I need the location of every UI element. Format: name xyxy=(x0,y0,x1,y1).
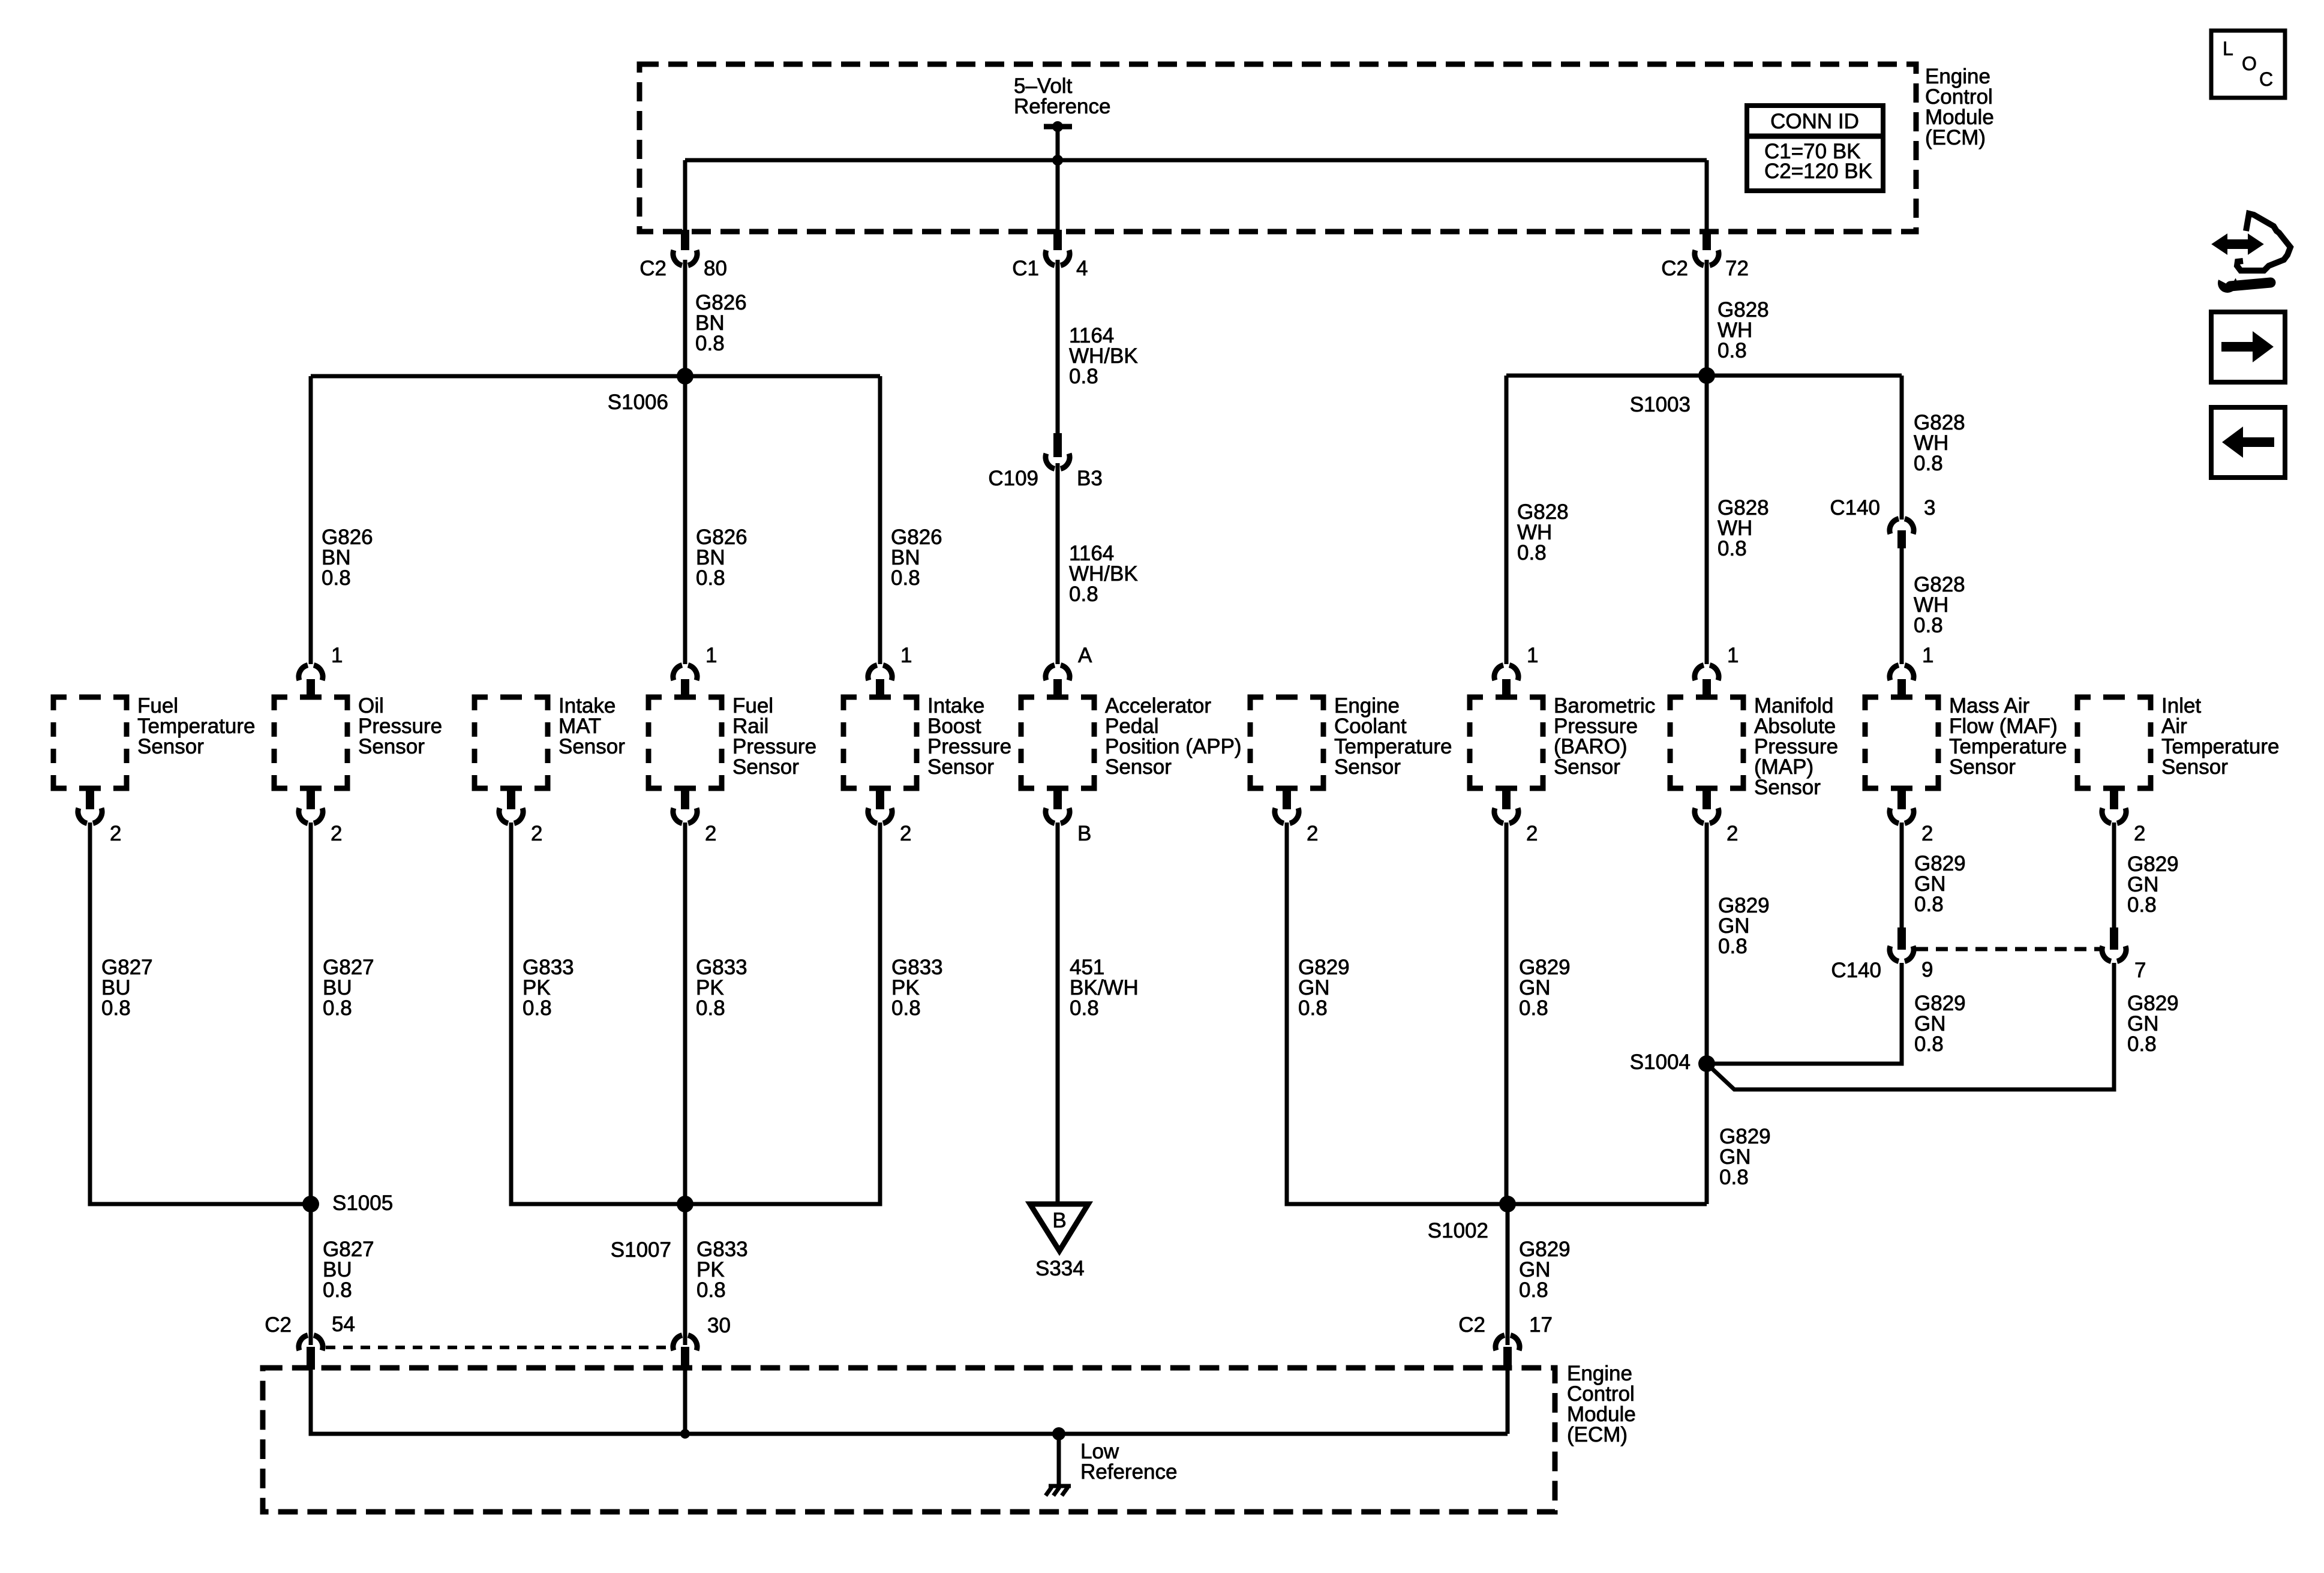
svg-text:4: 4 xyxy=(1076,257,1088,280)
svg-text:0.8: 0.8 xyxy=(696,1278,726,1302)
svg-text:C140: C140 xyxy=(1831,959,1881,982)
svg-text:Sensor: Sensor xyxy=(559,735,625,758)
wire G833 PK: Intake Boost pin 2 to S1007 xyxy=(685,822,880,1204)
wire: ECM internal C2-17 drop xyxy=(1506,1368,1510,1434)
wire G827 BU: Fuel Temp pin 2 to S1005 xyxy=(90,822,311,1204)
svg-text:72: 72 xyxy=(1725,257,1749,280)
svg-text:S1004: S1004 xyxy=(1630,1050,1691,1074)
svg-text:54: 54 xyxy=(332,1313,355,1336)
sensor: Inlet Air Temperature Sensor xyxy=(2077,694,2279,845)
svg-text:2: 2 xyxy=(705,822,716,845)
wire G826 BN: S1006 to Fuel Rail Pressure Sensor pin 1 xyxy=(683,376,687,664)
svg-text:0.8: 0.8 xyxy=(323,996,352,1020)
wire G828 WH: C140-3 to MAF sensor pin 1 xyxy=(1900,548,1904,664)
wire G829 GN: S1002 to ECM C2 pin 17 xyxy=(1506,1204,1510,1345)
svg-text:1: 1 xyxy=(1527,644,1538,667)
svg-text:S1003: S1003 xyxy=(1630,393,1691,416)
wire: ECM internal C2-54 to low reference bus xyxy=(311,1368,1508,1434)
svg-text:Sensor: Sensor xyxy=(1105,755,1172,779)
connector C2 pin 72 (ECM) xyxy=(1661,230,1749,280)
svg-text:C2=120 BK: C2=120 BK xyxy=(1764,160,1872,183)
wire G829 GN: C140-9 to S1004 xyxy=(1707,963,1902,1064)
svg-text:0.8: 0.8 xyxy=(1718,935,1747,958)
wire label G829 GN 0.8 (MAP) xyxy=(1718,894,1770,958)
splice S1006 xyxy=(608,368,693,414)
svg-text:0.8: 0.8 xyxy=(323,1278,352,1302)
wire: 5V bus inside ECM (C2-80 to C2-72) xyxy=(685,158,1707,163)
svg-text:C: C xyxy=(2259,68,2273,90)
svg-text:1: 1 xyxy=(1922,644,1933,667)
wire G829 GN: ECT pin 2 to S1002 xyxy=(1287,822,1506,1204)
svg-text:Sensor: Sensor xyxy=(2161,755,2228,779)
sensor: Engine Coolant Temperature Sensor xyxy=(1250,694,1452,845)
connector C140 pins 9-7 mating dashed line xyxy=(1916,947,2100,951)
icon: back arrow box xyxy=(2211,407,2285,478)
sensor: Intake Boost Pressure Sensor xyxy=(843,644,1011,845)
label: Low Reference xyxy=(1080,1440,1177,1484)
svg-text:0.8: 0.8 xyxy=(1914,452,1943,475)
wire G826 BN: C2-80 to splice S1006 xyxy=(683,260,687,376)
svg-text:1: 1 xyxy=(705,644,717,667)
svg-text:1: 1 xyxy=(900,644,912,667)
wire G827 BU: S1005 to ECM C2 pin 54 xyxy=(309,1204,313,1345)
sensor: Fuel Temperature Sensor xyxy=(53,694,255,845)
splice S1004 xyxy=(1630,1050,1715,1074)
junction: pin 30 at low reference bus xyxy=(680,1429,690,1439)
svg-text:0.8: 0.8 xyxy=(1298,996,1328,1020)
svg-text:B3: B3 xyxy=(1077,467,1103,490)
svg-text:2: 2 xyxy=(110,822,121,845)
wire label G827 BU 0.8 (below S1005) xyxy=(323,1238,374,1302)
svg-text:0.8: 0.8 xyxy=(1519,996,1548,1020)
wire G828 WH: S1003 to MAP sensor pin 1 xyxy=(1705,376,1709,664)
svg-text:C140: C140 xyxy=(1830,496,1880,520)
wire label G828 WH 0.8 (MAP branch) xyxy=(1718,496,1769,560)
wire 451 BK/WH: APP pin B to ground S334 xyxy=(1056,822,1060,1204)
wire label G826 BN 0.8 (Fuel Rail branch) xyxy=(696,526,747,590)
sensor: Barometric Pressure (BARO) Sensor xyxy=(1470,644,1655,845)
connector C2 pin 30 (ECM bottom) xyxy=(673,1314,731,1370)
wire G828 WH: C2-72 to splice S1003 xyxy=(1705,260,1709,376)
wire: 5V reference vertical from terminal to C1 pin 4 xyxy=(1056,127,1060,234)
connector C140 pin 9 (inline) xyxy=(1831,927,1933,982)
wire label 1164 WH/BK 0.8 (lower) xyxy=(1069,542,1138,606)
wire label G829 GN 0.8 (below C140-7) xyxy=(2127,992,2179,1056)
wire label G829 GN 0.8 (BARO) xyxy=(1519,956,1571,1020)
wire label G828 WH 0.8 (BARO branch) xyxy=(1517,500,1569,565)
icon: harness routing (arrow + outline + wrench) xyxy=(2212,214,2290,293)
CONN ID table xyxy=(1747,106,1883,191)
svg-text:17: 17 xyxy=(1529,1313,1553,1337)
label: Engine Control Module (ECM) top xyxy=(1925,65,1994,149)
svg-text:9: 9 xyxy=(1921,958,1933,981)
junction: low reference ground tap xyxy=(1052,1427,1065,1440)
svg-text:0.8: 0.8 xyxy=(891,566,920,590)
svg-text:S1002: S1002 xyxy=(1428,1219,1488,1242)
svg-text:0.8: 0.8 xyxy=(891,996,921,1020)
svg-text:C109: C109 xyxy=(988,467,1038,490)
splice S1003 xyxy=(1630,367,1715,416)
wire label G828 WH 0.8 (below C2-72) xyxy=(1718,298,1769,362)
wire label G827 BU 0.8 (Oil) xyxy=(323,956,374,1020)
svg-text:S334: S334 xyxy=(1035,1257,1085,1280)
svg-text:Sensor: Sensor xyxy=(1754,776,1821,799)
svg-text:0.8: 0.8 xyxy=(101,996,131,1020)
wire G826 BN: S1006 branch bus xyxy=(311,374,880,379)
wire G827 BU: Oil Pressure pin 2 to S1005 xyxy=(309,822,313,1204)
ECM module box (bottom): Engine Control Module dashed outline xyxy=(263,1368,1555,1512)
svg-text:0.8: 0.8 xyxy=(1070,996,1099,1020)
connector C140 pin 3 (inline) xyxy=(1830,496,1935,548)
wire G829 GN: C140-7 to S1004 (diagonal jog) xyxy=(1707,963,2114,1089)
ground: ECM low reference chassis ground xyxy=(1046,1434,1071,1496)
svg-text:Sensor: Sensor xyxy=(1334,755,1401,779)
wire: ECM internal C2-30 drop xyxy=(683,1368,687,1434)
icon: LOC box xyxy=(2211,31,2285,98)
svg-text:Sensor: Sensor xyxy=(732,755,799,779)
wire label G829 GN 0.8 (MAF) xyxy=(1914,852,1966,916)
wire label G828 WH 0.8 (above C140-3) xyxy=(1914,411,1965,475)
svg-text:S1005: S1005 xyxy=(332,1191,393,1215)
svg-text:0.8: 0.8 xyxy=(1719,1166,1749,1189)
svg-text:Reference: Reference xyxy=(1014,95,1110,118)
svg-text:0.8: 0.8 xyxy=(2127,893,2157,917)
splice S1007 xyxy=(611,1196,693,1262)
wire label G826 BN 0.8 (Boost branch) xyxy=(891,526,942,590)
svg-text:(ECM): (ECM) xyxy=(1567,1423,1628,1446)
wire: ECM internal drop to C2 pin 72 xyxy=(1705,160,1709,234)
svg-text:Sensor: Sensor xyxy=(1554,755,1620,779)
splice S1002 xyxy=(1428,1196,1516,1242)
svg-text:0.8: 0.8 xyxy=(1718,537,1747,560)
sensor: Mass Air Flow (MAF) Temperature Sensor xyxy=(1865,644,2067,845)
svg-text:2: 2 xyxy=(331,822,342,845)
svg-text:2: 2 xyxy=(900,822,911,845)
svg-text:0.8: 0.8 xyxy=(1914,893,1944,916)
junction: 5V bus crossing xyxy=(1052,155,1063,166)
wire: ECM internal drop to C2 pin 80 xyxy=(683,160,687,234)
wire G833 PK: Intake MAT pin 2 to S1007 xyxy=(511,822,685,1204)
svg-text:2: 2 xyxy=(1727,822,1738,845)
wire G829 GN: BARO pin 2 to S1002 xyxy=(1505,822,1509,1204)
sensor: Accelerator Pedal Position (APP) Sensor xyxy=(1021,644,1242,845)
svg-text:0.8: 0.8 xyxy=(696,996,725,1020)
svg-text:Sensor: Sensor xyxy=(358,735,425,758)
wire G828 WH: S1003 to BARO sensor pin 1 xyxy=(1505,376,1509,664)
connector C2 pin 54 (ECM bottom) xyxy=(265,1313,355,1370)
svg-text:0.8: 0.8 xyxy=(696,566,725,590)
connector C2 pin 80 (ECM) xyxy=(639,230,727,280)
svg-text:0.8: 0.8 xyxy=(322,566,351,590)
svg-text:Sensor: Sensor xyxy=(927,755,994,779)
connector C1 pin 4 (ECM) xyxy=(1012,230,1088,280)
svg-text:Sensor: Sensor xyxy=(1949,755,2016,779)
wire G829 GN: S1004 to S1002 bus xyxy=(1705,1064,1709,1204)
svg-text:B: B xyxy=(1077,822,1091,845)
svg-text:1: 1 xyxy=(331,644,343,667)
svg-text:2: 2 xyxy=(1307,822,1318,845)
svg-text:0.8: 0.8 xyxy=(523,996,552,1020)
svg-text:S1007: S1007 xyxy=(611,1238,671,1262)
svg-text:Sensor: Sensor xyxy=(137,735,204,758)
wire label G829 GN 0.8 (ECT) xyxy=(1298,956,1350,1020)
svg-text:Reference: Reference xyxy=(1080,1460,1177,1484)
wire 1164 WH/BK: C1-4 to C109 xyxy=(1056,260,1060,435)
svg-text:2: 2 xyxy=(2134,822,2145,845)
wire G829 GN: MAP pin 2 to S1004 xyxy=(1705,822,1709,1064)
ECM module box (top): Engine Control Module dashed outline xyxy=(639,64,1916,232)
connector C2 pin 17 (ECM bottom) xyxy=(1458,1313,1553,1370)
svg-text:0.8: 0.8 xyxy=(695,332,725,355)
wire label 1164 WH/BK 0.8 (upper) xyxy=(1069,324,1138,388)
svg-text:0.8: 0.8 xyxy=(1519,1278,1548,1302)
svg-text:2: 2 xyxy=(1526,822,1538,845)
wire 1164 WH/BK: C109 to APP sensor pin A xyxy=(1056,463,1060,664)
svg-text:A: A xyxy=(1078,644,1092,667)
svg-text:S1006: S1006 xyxy=(608,391,668,414)
svg-text:C2: C2 xyxy=(1661,257,1688,280)
svg-text:0.8: 0.8 xyxy=(1914,614,1943,637)
svg-text:CONN ID: CONN ID xyxy=(1770,110,1859,133)
node: 5-Volt Reference terminal xyxy=(1014,74,1110,132)
svg-text:0.8: 0.8 xyxy=(1069,365,1098,388)
wire G829 GN: MAF pin 2 to C140 pin 9 xyxy=(1900,822,1904,930)
sensor: Oil Pressure Sensor xyxy=(274,644,442,845)
wire G826 BN: S1006 to Intake Boost Pressure Sensor pin 1 xyxy=(878,376,882,664)
wire G828 WH: S1003 branch bus xyxy=(1506,374,1902,378)
connector C109 pin B3 (inline) xyxy=(988,433,1102,490)
svg-text:0.8: 0.8 xyxy=(1718,339,1747,362)
svg-text:0.8: 0.8 xyxy=(1914,1032,1944,1056)
svg-text:(ECM): (ECM) xyxy=(1925,126,1986,149)
connector C140 pin 7 (inline) xyxy=(2102,927,2146,982)
svg-text:0.8: 0.8 xyxy=(1517,541,1547,565)
wire label G833 PK 0.8 (MAT) xyxy=(523,956,574,1020)
svg-text:2: 2 xyxy=(531,822,542,845)
wire label G829 GN 0.8 (below C140-9) xyxy=(1914,992,1966,1056)
wire G828 WH: S1003 to C140 pin 3 xyxy=(1900,376,1904,520)
wire G833 PK: S1007 to ECM pin 30 xyxy=(683,1204,687,1345)
sensor: Fuel Rail Pressure Sensor xyxy=(648,644,816,845)
wire label G829 GN 0.8 (Inlet Air) xyxy=(2127,852,2179,917)
svg-text:C2: C2 xyxy=(639,257,666,280)
wire G829 GN: S1002 bus to MAP column xyxy=(1506,1202,1707,1206)
connector C2 pins 54-30 mating dotted line xyxy=(326,1346,670,1349)
wire G833 PK: Fuel Rail pin 2 to S1007 xyxy=(683,822,687,1204)
sensor: Intake MAT Sensor xyxy=(475,694,625,845)
wire label G826 BN 0.8 (Oil branch) xyxy=(322,526,373,590)
svg-text:1: 1 xyxy=(1727,644,1739,667)
wire label G826 BN 0.8 (below C2-80) xyxy=(695,291,747,355)
svg-text:C1: C1 xyxy=(1012,257,1039,280)
svg-text:0.8: 0.8 xyxy=(1069,583,1098,606)
wire label G833 PK 0.8 (Fuel Rail) xyxy=(696,956,747,1020)
wire label G828 WH 0.8 (below C140-3) xyxy=(1914,573,1965,637)
svg-text:30: 30 xyxy=(707,1314,731,1337)
wire label G829 GN 0.8 (below S1002) xyxy=(1519,1238,1571,1302)
wire G829 GN: Inlet Air pin 2 to C140 pin 7 xyxy=(2112,822,2116,930)
wire label 451 BK/WH 0.8 xyxy=(1070,956,1139,1020)
icon: forward arrow box xyxy=(2211,312,2285,382)
svg-text:80: 80 xyxy=(704,257,727,280)
svg-text:7: 7 xyxy=(2134,959,2146,982)
wire G826 BN: S1006 to Oil Pressure Sensor pin 1 xyxy=(309,376,313,664)
svg-text:O: O xyxy=(2242,53,2257,74)
wire label G829 GN 0.8 (below S1004) xyxy=(1719,1125,1771,1189)
wire label G827 BU 0.8 (Fuel Temp) xyxy=(101,956,153,1020)
svg-text:0.8: 0.8 xyxy=(2127,1032,2157,1056)
svg-text:C2: C2 xyxy=(1458,1313,1485,1337)
wire label G833 PK 0.8 (below S1007) xyxy=(696,1238,748,1302)
svg-text:B: B xyxy=(1052,1209,1066,1232)
label: Engine Control Module (ECM) bottom xyxy=(1567,1362,1636,1446)
svg-text:L: L xyxy=(2223,38,2233,59)
ground S334 (triangle B) xyxy=(1030,1204,1088,1280)
splice S1005 xyxy=(302,1191,393,1215)
sensor: Manifold Absolute Pressure (MAP) Sensor xyxy=(1670,644,1838,845)
svg-text:C2: C2 xyxy=(265,1313,292,1337)
svg-text:3: 3 xyxy=(1924,496,1935,520)
svg-text:2: 2 xyxy=(1921,822,1933,845)
wire label G833 PK 0.8 (Boost) xyxy=(891,956,943,1020)
